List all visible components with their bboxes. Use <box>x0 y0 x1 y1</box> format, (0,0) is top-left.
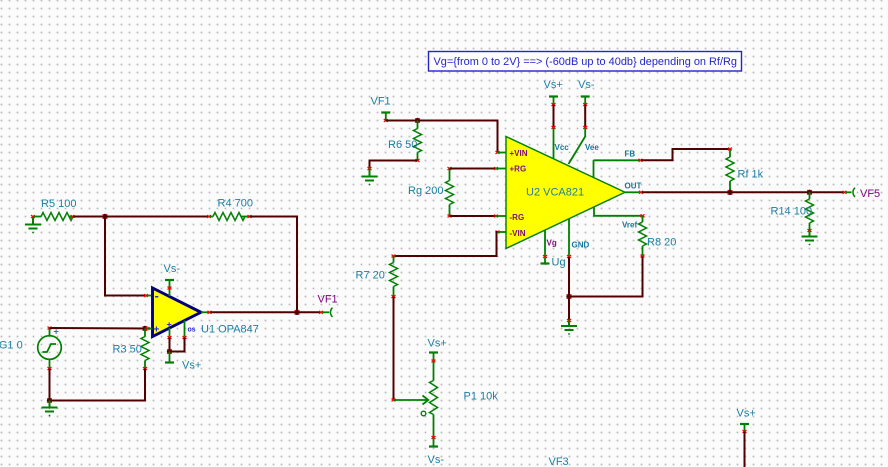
svg-text:+VIN: +VIN <box>510 149 528 158</box>
svg-text:OUT: OUT <box>625 182 642 191</box>
node GND junction <box>566 294 571 299</box>
svg-text:Vg: Vg <box>547 239 557 248</box>
svg-text:FB: FB <box>625 150 636 159</box>
wire R5 to R4 <box>73 216 209 218</box>
svg-text:-: - <box>155 288 159 303</box>
svg-text:VF5: VF5 <box>860 188 880 200</box>
resistor Rf <box>726 149 764 192</box>
Vs+ terminal below U1 <box>165 352 201 372</box>
VF1 input terminal (right) <box>371 96 391 122</box>
svg-text:Rf 1k: Rf 1k <box>738 169 764 181</box>
svg-text:P1 10k: P1 10k <box>464 391 499 403</box>
node R14/output junction <box>807 190 812 195</box>
svg-text:VF3: VF3 <box>549 456 569 467</box>
svg-text:U2 VCA821: U2 VCA821 <box>526 187 584 199</box>
ground at R5 left <box>25 215 41 233</box>
wire Rg bottom to -RG <box>450 215 507 218</box>
resistor R7 <box>356 256 398 298</box>
node junction R5/R4/feedback <box>102 214 107 219</box>
VF1 output terminal (left) <box>318 294 338 317</box>
wire VG1 bottom to ground <box>49 369 51 401</box>
Vs+ terminal above P1 <box>428 338 447 363</box>
potentiometer P1 wiper arrow <box>394 396 428 416</box>
svg-text:Vg={from 0 to 2V} ==> (-60dB u: Vg={from 0 to 2V} ==> (-60dB up to 40db}… <box>434 56 738 68</box>
svg-text:Vs+: Vs+ <box>544 79 563 91</box>
amplifier U2 VCA821 <box>506 137 625 249</box>
svg-text:Vs-: Vs- <box>164 263 181 275</box>
resistor R8 <box>639 216 677 258</box>
svg-text:+RG: +RG <box>510 165 527 174</box>
svg-text:-RG: -RG <box>510 213 525 222</box>
resistor R3 <box>113 329 150 370</box>
svg-text:Ug: Ug <box>552 257 566 269</box>
FB pin wire <box>594 150 643 178</box>
wire R3 bottom to ground <box>50 369 146 401</box>
svg-text:R7 20: R7 20 <box>356 270 385 282</box>
svg-text:-VIN: -VIN <box>510 229 526 238</box>
Vs- terminal above U1 <box>164 263 181 296</box>
svg-text:Rg 200: Rg 200 <box>408 185 443 197</box>
svg-text:U1 OPA847: U1 OPA847 <box>201 324 259 336</box>
wire Vs+ to Vcc pin <box>552 105 570 159</box>
wire R6 to ground <box>368 161 418 170</box>
wire R4 to output node <box>250 217 298 313</box>
resistor R14 <box>771 192 814 232</box>
resistor Rg <box>408 167 454 217</box>
op-amp U1 <box>153 288 259 337</box>
Vs+ terminal above U2 <box>544 79 563 106</box>
GND pin wire <box>567 219 590 322</box>
U1 output wire <box>201 311 321 314</box>
resistor R6 <box>388 121 422 162</box>
svg-text:R8 20: R8 20 <box>647 237 676 249</box>
svg-text:VF1: VF1 <box>371 96 391 108</box>
svg-text:Vs-: Vs- <box>578 79 595 91</box>
Vref pin wire <box>594 208 645 230</box>
wire Vs- to Vee pin <box>569 105 600 165</box>
wire R8 to GND net <box>569 257 643 297</box>
Vs+ terminal bottom right <box>737 408 756 433</box>
Vg pin wire <box>543 230 557 258</box>
svg-text:R5 100: R5 100 <box>41 198 76 210</box>
wire R7 to P1 wiper <box>392 297 396 402</box>
Vs- terminal above U2 <box>578 79 595 106</box>
info text box <box>429 52 742 72</box>
svg-text:VF1: VF1 <box>318 294 338 306</box>
svg-text:Vs-: Vs- <box>428 454 445 466</box>
wire Rg top to +RG <box>450 167 507 170</box>
wire FB to Rf <box>641 148 732 161</box>
wire VG1 to + input <box>50 327 146 330</box>
svg-text:Vs+: Vs+ <box>737 408 756 420</box>
node ground junction <box>47 398 52 403</box>
Vs- terminal below P1 <box>428 438 445 467</box>
node Rf/output junction <box>727 190 732 195</box>
svg-text:+: + <box>154 325 160 336</box>
svg-text:Vcc: Vcc <box>555 143 570 152</box>
node R6 top junction <box>415 118 420 123</box>
ground below VG1 <box>42 401 58 417</box>
wire from bottom right Vs+ <box>744 432 746 467</box>
Ug terminal <box>541 257 566 269</box>
svg-text:VG1 0: VG1 0 <box>0 340 23 352</box>
svg-text:R14 100: R14 100 <box>771 206 813 218</box>
resistor R5 <box>33 198 76 221</box>
svg-text:R3 50: R3 50 <box>113 344 142 356</box>
wire junction to inverting input <box>105 217 153 297</box>
VF5 output terminal <box>843 188 881 200</box>
node Vs+ junction under U1 <box>167 349 172 354</box>
svg-text:Vs+: Vs+ <box>182 360 201 372</box>
svg-text:Vs+: Vs+ <box>428 338 447 350</box>
node feedback/output junction <box>294 310 299 315</box>
svg-text:GND: GND <box>572 241 590 250</box>
svg-text:Vee: Vee <box>585 143 599 152</box>
U1 os pin <box>170 321 196 352</box>
node + input junction <box>142 326 152 331</box>
svg-text:os: os <box>188 327 196 334</box>
ground below R6 <box>362 169 378 186</box>
potentiometer P1 10k <box>430 361 499 439</box>
voltage source VG1 <box>0 327 61 370</box>
svg-text:R6 50: R6 50 <box>388 139 417 151</box>
resistor R4 <box>207 198 253 221</box>
ground below R14 <box>802 231 818 246</box>
node label VF3 <box>549 456 569 467</box>
svg-text:R4 700: R4 700 <box>218 198 253 210</box>
U1 V+ supply pin <box>168 328 172 352</box>
U2 output wire <box>625 182 845 194</box>
wire VF1 to +VIN <box>386 121 506 154</box>
ground below U2 <box>561 321 577 335</box>
svg-text:Vref: Vref <box>622 221 637 230</box>
-VIN wire to R7 <box>392 231 507 258</box>
